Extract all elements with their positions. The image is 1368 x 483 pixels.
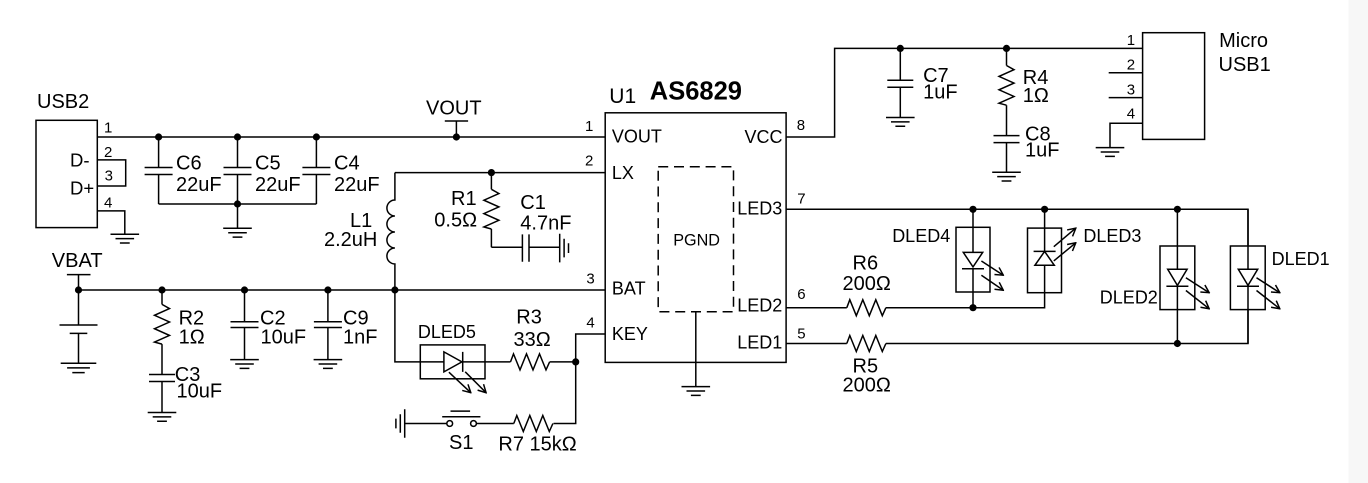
svg-text:R7 15kΩ: R7 15kΩ <box>498 433 576 455</box>
svg-text:S1: S1 <box>449 432 473 454</box>
svg-text:DLED1: DLED1 <box>1272 249 1330 269</box>
svg-text:U1: U1 <box>609 85 636 108</box>
svg-text:C5: C5 <box>255 152 281 174</box>
svg-text:VCC: VCC <box>745 127 783 147</box>
svg-text:BAT: BAT <box>612 279 646 299</box>
svg-text:200Ω: 200Ω <box>843 374 891 396</box>
svg-text:22uF: 22uF <box>255 174 301 196</box>
svg-text:1: 1 <box>1127 32 1135 49</box>
svg-text:0.5Ω: 0.5Ω <box>434 210 477 232</box>
svg-text:DLED4: DLED4 <box>892 226 950 246</box>
svg-text:C1: C1 <box>520 192 546 214</box>
svg-text:LX: LX <box>612 163 634 183</box>
svg-text:4.7nF: 4.7nF <box>520 213 571 235</box>
svg-text:2: 2 <box>585 153 593 170</box>
svg-text:DLED5: DLED5 <box>418 322 476 342</box>
svg-text:1Ω: 1Ω <box>179 327 205 349</box>
svg-text:3: 3 <box>1127 82 1135 99</box>
svg-text:5: 5 <box>797 326 805 343</box>
svg-text:10uF: 10uF <box>261 326 307 348</box>
svg-text:R3: R3 <box>516 307 542 329</box>
svg-text:KEY: KEY <box>612 324 648 344</box>
svg-text:200Ω: 200Ω <box>843 273 891 295</box>
svg-text:R6: R6 <box>853 252 879 274</box>
svg-text:6: 6 <box>797 286 805 303</box>
svg-text:1Ω: 1Ω <box>1023 85 1049 107</box>
svg-text:3: 3 <box>586 271 594 288</box>
svg-text:4: 4 <box>1127 105 1135 122</box>
svg-text:LED3: LED3 <box>737 199 782 219</box>
svg-text:VOUT: VOUT <box>426 98 482 120</box>
svg-text:22uF: 22uF <box>334 174 380 196</box>
svg-text:7: 7 <box>797 191 805 208</box>
svg-text:33Ω: 33Ω <box>514 329 551 351</box>
svg-text:C6: C6 <box>176 152 202 174</box>
svg-text:10uF: 10uF <box>177 380 223 402</box>
svg-text:3: 3 <box>105 168 113 185</box>
svg-text:4: 4 <box>586 315 594 332</box>
svg-text:1nF: 1nF <box>343 326 377 348</box>
svg-text:4: 4 <box>104 195 112 212</box>
svg-text:VBAT: VBAT <box>52 250 103 272</box>
svg-text:8: 8 <box>797 117 805 134</box>
svg-text:LED2: LED2 <box>737 296 782 316</box>
svg-text:2: 2 <box>1127 57 1135 74</box>
svg-text:AS6829: AS6829 <box>650 78 742 106</box>
svg-text:USB1: USB1 <box>1219 54 1271 76</box>
svg-text:1: 1 <box>585 118 593 135</box>
svg-text:LED1: LED1 <box>737 333 782 353</box>
svg-text:DLED2: DLED2 <box>1100 287 1158 307</box>
svg-text:DLED3: DLED3 <box>1083 226 1141 246</box>
svg-text:Micro: Micro <box>1219 30 1268 52</box>
svg-text:D-: D- <box>70 150 90 171</box>
svg-text:22uF: 22uF <box>176 174 222 196</box>
svg-text:1: 1 <box>104 119 112 136</box>
svg-text:2.2uH: 2.2uH <box>324 229 377 251</box>
svg-text:D+: D+ <box>70 178 94 199</box>
svg-text:R1: R1 <box>451 188 477 210</box>
svg-text:1uF: 1uF <box>923 82 957 104</box>
svg-text:1uF: 1uF <box>1025 139 1059 161</box>
svg-text:USB2: USB2 <box>37 91 89 113</box>
svg-text:PGND: PGND <box>673 232 720 250</box>
svg-text:C4: C4 <box>334 152 360 174</box>
svg-text:VOUT: VOUT <box>612 127 662 147</box>
svg-text:2: 2 <box>104 144 112 161</box>
